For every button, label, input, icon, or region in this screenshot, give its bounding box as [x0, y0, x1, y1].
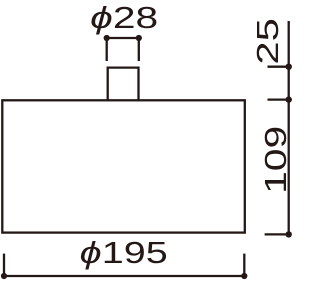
svg-text:ϕ195: ϕ195 [80, 235, 168, 270]
svg-text:25: 25 [250, 18, 285, 65]
dot phi195 left [1, 273, 7, 279]
dot phi28 right [136, 35, 142, 41]
dimension line phi28 [107, 37, 139, 39]
extension line phi195 left [3, 254, 5, 276]
svg-text:ϕ28: ϕ28 [90, 0, 158, 35]
svg-text:109: 109 [258, 126, 293, 194]
fixture body outline [2, 100, 245, 232]
extension line phi195 right [243, 254, 245, 276]
dot stem top [286, 63, 292, 69]
tick body top [268, 98, 289, 100]
tick stem top [268, 66, 289, 68]
vertical dimension line right [288, 21, 290, 234]
mounting stem outline [108, 68, 139, 101]
tick body bottom [265, 233, 289, 235]
dot body bottom [286, 231, 292, 237]
extension line phi28 left [106, 38, 108, 61]
dot body top [286, 96, 292, 102]
dot phi195 right [241, 273, 247, 279]
extension line phi28 right [138, 38, 140, 61]
dot phi28 left [104, 35, 110, 41]
dimension line phi195 [4, 275, 244, 277]
